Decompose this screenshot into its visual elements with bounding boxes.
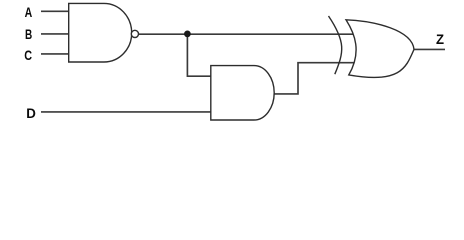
svg-text:D: D [26,106,36,122]
svg-text:Z: Z [436,32,444,48]
svg-text:B: B [25,27,32,43]
svg-text:A: A [25,5,33,21]
svg-text:C: C [24,48,32,64]
